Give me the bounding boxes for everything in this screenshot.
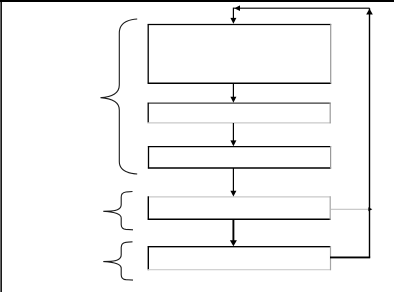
box 3	[148, 146, 331, 169]
wire: top feedback horizontal line	[233, 7, 369, 9]
arrow box 3 to box 4	[230, 168, 236, 197]
wire: box 4 to feedback line (gray)	[331, 208, 369, 210]
arrow box 4 to box 5 (thick)	[230, 219, 237, 246]
brace small (box 4)	[103, 192, 133, 230]
brace big (boxes 1-3)	[101, 19, 138, 174]
arrowhead left at top corner	[234, 5, 240, 11]
wire: right feedback vertical line	[369, 8, 371, 257]
frame top border	[0, 0, 394, 2]
arrow box 1 to box 2	[230, 84, 236, 103]
wire: bottom feedback horizontal line (thick)	[330, 256, 370, 258]
arrow into box 1	[230, 8, 236, 24]
arrow box 2 to box 3	[230, 123, 236, 146]
brace small (box 5)	[103, 242, 133, 280]
frame left border	[0, 0, 2, 292]
arrowhead right at feedback junction	[368, 207, 372, 211]
box 2	[148, 103, 331, 124]
box 4	[148, 196, 331, 220]
box 5	[148, 246, 331, 270]
arrowhead up on right feedback line	[366, 9, 373, 15]
box 1	[148, 24, 332, 84]
